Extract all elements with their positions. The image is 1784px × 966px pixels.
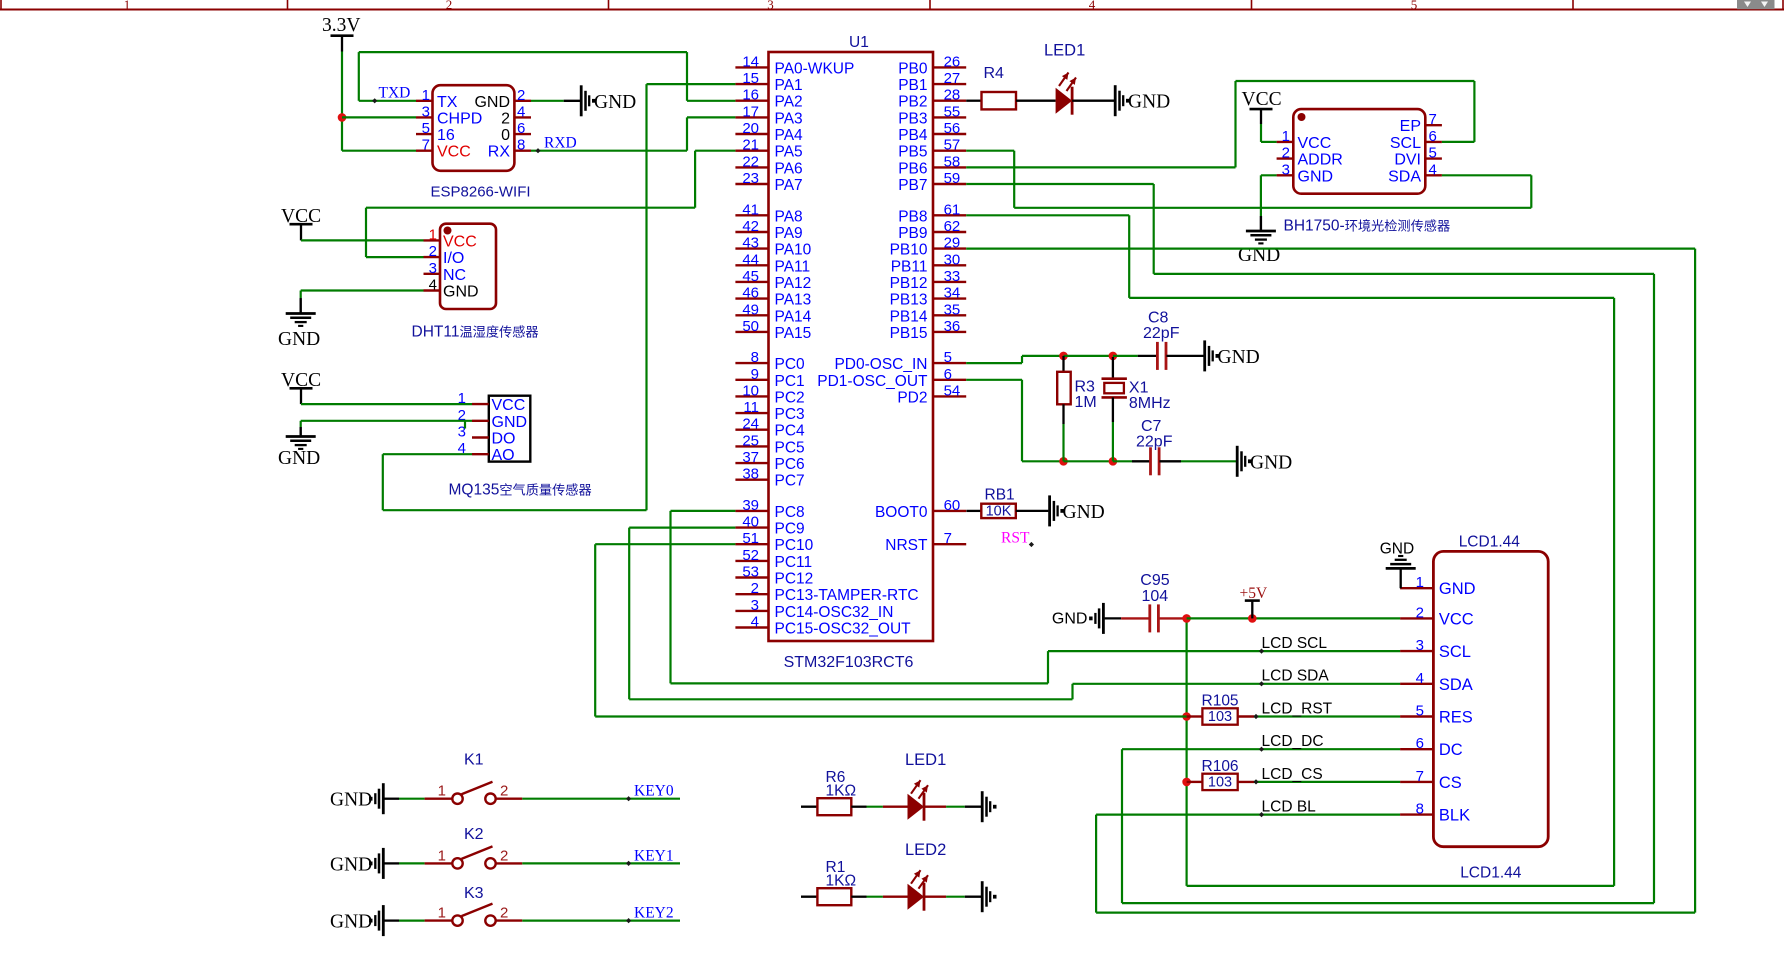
svg-text:GND: GND bbox=[1063, 502, 1105, 523]
svg-text:PB9: PB9 bbox=[898, 225, 927, 242]
svg-text:BLK: BLK bbox=[1439, 807, 1470, 825]
resistor R6 1K bbox=[817, 798, 851, 815]
svg-text:LED2: LED2 bbox=[905, 841, 946, 859]
svg-text:8: 8 bbox=[517, 137, 525, 154]
svg-text:35: 35 bbox=[944, 301, 961, 318]
svg-text:PA12: PA12 bbox=[775, 275, 812, 292]
svg-text:PB5: PB5 bbox=[898, 144, 927, 161]
svg-text:R4: R4 bbox=[984, 65, 1005, 82]
svg-text:PC3: PC3 bbox=[775, 406, 805, 423]
svg-text:5: 5 bbox=[1416, 703, 1424, 720]
svg-text:43: 43 bbox=[742, 235, 759, 252]
svg-text:PC13-TAMPER-RTC: PC13-TAMPER-RTC bbox=[775, 587, 919, 604]
LCD pin 7 CS bbox=[1400, 781, 1433, 783]
svg-text:11: 11 bbox=[743, 399, 759, 416]
svg-text:45: 45 bbox=[742, 268, 759, 285]
svg-text:26: 26 bbox=[944, 53, 961, 70]
svg-text:GND: GND bbox=[1380, 541, 1414, 558]
wire DHT11 pin2 I/O to PA5 bbox=[366, 256, 424, 258]
svg-text:PB0: PB0 bbox=[898, 60, 928, 77]
svg-text:59: 59 bbox=[944, 170, 961, 187]
svg-text:CS: CS bbox=[1439, 774, 1462, 792]
svg-text:CHPD: CHPD bbox=[437, 110, 482, 127]
svg-text:PB2: PB2 bbox=[898, 94, 927, 111]
svg-text:LCD BL: LCD BL bbox=[1262, 799, 1317, 816]
MQ135 pin 1 bbox=[472, 403, 489, 405]
wire GND to K3 bbox=[385, 919, 400, 921]
svg-text:33: 33 bbox=[944, 268, 961, 285]
svg-text:8: 8 bbox=[1416, 801, 1424, 818]
svg-text:40: 40 bbox=[742, 514, 759, 531]
svg-text:3: 3 bbox=[429, 260, 437, 277]
U1 pin 7 NRST bbox=[933, 543, 966, 545]
svg-text:56: 56 bbox=[944, 120, 961, 137]
svg-text:PA5: PA5 bbox=[775, 144, 803, 161]
svg-text:MQ135空气质量传感器: MQ135空气质量传感器 bbox=[449, 482, 592, 499]
wire K2 to net KEY1 bbox=[496, 862, 523, 864]
svg-text:PC15-OSC32_OUT: PC15-OSC32_OUT bbox=[775, 621, 912, 638]
wire PC8 to LCD SCL bbox=[671, 510, 736, 512]
svg-text:20: 20 bbox=[742, 120, 759, 137]
wire stub left of R6 bbox=[801, 806, 817, 808]
svg-text:6: 6 bbox=[517, 120, 525, 137]
svg-text:PA2: PA2 bbox=[775, 94, 803, 111]
svg-text:25: 25 bbox=[742, 432, 759, 449]
svg-text:DHT11温湿度传感器: DHT11温湿度传感器 bbox=[412, 324, 539, 341]
svg-text:57: 57 bbox=[944, 137, 961, 154]
svg-text:2: 2 bbox=[500, 783, 508, 800]
svg-text:VCC: VCC bbox=[1242, 89, 1282, 110]
svg-text:LCD1.44: LCD1.44 bbox=[1460, 865, 1522, 882]
svg-text:PC2: PC2 bbox=[775, 389, 805, 406]
svg-text:PA15: PA15 bbox=[775, 325, 812, 342]
svg-text:2: 2 bbox=[500, 905, 508, 922]
U1 pin 22 PA6 bbox=[735, 166, 768, 168]
ground LED1 GND bbox=[981, 791, 984, 822]
ground LED1 GND bbox=[1114, 85, 1117, 116]
BH1750 pin 4 SDA bbox=[1425, 174, 1442, 176]
svg-text:2: 2 bbox=[517, 87, 525, 104]
wire R6 to LED1 bbox=[851, 806, 866, 808]
svg-text:2: 2 bbox=[429, 243, 437, 260]
junction rail2/X1 bbox=[1109, 457, 1118, 466]
ground DHT11 GND bbox=[300, 299, 302, 314]
svg-text:PA11: PA11 bbox=[775, 258, 811, 275]
U1 pin 23 PA7 bbox=[735, 183, 768, 185]
U1 pin 57 PB5 bbox=[933, 149, 966, 151]
svg-text:RX: RX bbox=[488, 144, 511, 161]
svg-text:2: 2 bbox=[1282, 145, 1290, 162]
svg-text:17: 17 bbox=[742, 103, 759, 120]
module ESP8266-WIFI body bbox=[433, 85, 515, 171]
U1 pin 56 PB4 bbox=[933, 133, 966, 135]
ground MQ135 GND bbox=[300, 427, 302, 437]
svg-text:22pF: 22pF bbox=[1136, 434, 1173, 451]
svg-text:6: 6 bbox=[1416, 735, 1424, 752]
switch K2 bbox=[452, 858, 462, 868]
U1 pin 8 PC0 bbox=[735, 362, 768, 364]
svg-text:PB11: PB11 bbox=[891, 258, 928, 275]
wire PB5 to BH1750 SDA bbox=[966, 150, 1014, 152]
display LCD1.44 body bbox=[1433, 551, 1548, 846]
svg-text:PB4: PB4 bbox=[898, 127, 928, 144]
net RXD wire ESP pin8 to PA3 bbox=[531, 150, 687, 152]
wire LCD SCL from PC8 bbox=[1048, 650, 1400, 652]
wire GND to K2 bbox=[385, 862, 400, 864]
wire PC9 to LCD SDA bbox=[629, 526, 735, 528]
led LED1 bbox=[908, 794, 925, 820]
svg-text:29: 29 bbox=[944, 235, 961, 252]
svg-text:PC4: PC4 bbox=[775, 423, 806, 440]
U1 pin 9 PC1 bbox=[735, 379, 768, 381]
DHT11 pin1 marker dot bbox=[444, 227, 452, 235]
svg-text:GND: GND bbox=[1052, 611, 1088, 628]
wire VCC to BH1750 pin1 bbox=[1260, 124, 1262, 142]
capacitor C7 22pF bbox=[1132, 460, 1151, 462]
svg-text:LCD_RST: LCD_RST bbox=[1262, 701, 1333, 718]
junction RES row bbox=[1182, 712, 1191, 721]
svg-text:5: 5 bbox=[422, 120, 430, 137]
svg-text:VCC: VCC bbox=[492, 397, 526, 414]
DHT11 pin 2 bbox=[424, 256, 441, 258]
wire PB8 to +5V net bbox=[966, 214, 1129, 216]
svg-text:R3: R3 bbox=[1075, 379, 1096, 396]
wire K3 to net KEY2 bbox=[496, 919, 523, 921]
svg-text:103: 103 bbox=[1208, 709, 1232, 725]
svg-text:1: 1 bbox=[438, 847, 446, 864]
sheet ruler bar bbox=[0, 9, 1784, 11]
svg-text:ADDR: ADDR bbox=[1298, 152, 1343, 169]
svg-text:ESP8266-WIFI: ESP8266-WIFI bbox=[431, 184, 531, 201]
U1 pin 2 PC13-TAMPER-RTC bbox=[735, 593, 768, 595]
BH1750 pin 6 SCL bbox=[1425, 141, 1442, 143]
svg-text:3: 3 bbox=[422, 103, 430, 120]
svg-text:22: 22 bbox=[742, 153, 759, 170]
svg-text:4: 4 bbox=[751, 614, 759, 631]
svg-text:PB13: PB13 bbox=[890, 292, 928, 309]
svg-text:16: 16 bbox=[437, 127, 455, 144]
svg-text:103: 103 bbox=[1208, 774, 1232, 790]
LCD pin 3 SCL bbox=[1400, 650, 1433, 652]
svg-text:7: 7 bbox=[944, 530, 952, 547]
resistor R3 1M bbox=[1062, 356, 1064, 372]
wire PB10 to LCD BLK bbox=[966, 248, 1695, 250]
wire to ESP pin3 CHPD bbox=[342, 116, 416, 118]
junction rail2/R3 bbox=[1059, 457, 1068, 466]
U1 pin 27 PB1 bbox=[933, 83, 966, 85]
svg-text:NC: NC bbox=[443, 267, 466, 284]
svg-text:51: 51 bbox=[742, 530, 759, 547]
ESP8266 pin 1 stub bbox=[416, 100, 433, 102]
svg-text:RXD: RXD bbox=[544, 135, 577, 152]
svg-text:VCC: VCC bbox=[443, 233, 477, 250]
wire stub left of R1 bbox=[801, 896, 817, 898]
U1 pin 61 PB8 bbox=[933, 214, 966, 216]
resistor R1 1K bbox=[817, 888, 851, 905]
svg-text:PB8: PB8 bbox=[898, 208, 927, 225]
U1 pin 60 BOOT0 bbox=[933, 510, 966, 512]
svg-text:5: 5 bbox=[944, 349, 952, 366]
U1 pin 34 PB13 bbox=[933, 297, 966, 299]
BH1750 pin 7 EP bbox=[1425, 124, 1442, 126]
svg-text:2: 2 bbox=[500, 847, 508, 864]
svg-text:DO: DO bbox=[492, 431, 516, 448]
svg-text:2: 2 bbox=[501, 110, 510, 127]
svg-text:53: 53 bbox=[742, 564, 759, 581]
svg-text:PC5: PC5 bbox=[775, 439, 805, 456]
U1 pin 24 PC4 bbox=[735, 429, 768, 431]
svg-text:SCL: SCL bbox=[1390, 135, 1421, 152]
U1 pin 21 PA5 bbox=[735, 149, 768, 151]
DHT11 pin 3 bbox=[424, 273, 441, 275]
svg-text:62: 62 bbox=[944, 218, 961, 235]
svg-text:1KΩ: 1KΩ bbox=[826, 873, 857, 890]
U1 pin 26 PB0 bbox=[933, 66, 966, 68]
svg-text:KEY1: KEY1 bbox=[634, 847, 674, 864]
wire MQ135 pin4 AO to PA1 bbox=[383, 453, 472, 455]
svg-text:GND: GND bbox=[594, 92, 636, 113]
U1 pin 16 PA2 bbox=[735, 99, 768, 101]
ESP8266 pin 5 stub bbox=[416, 133, 433, 135]
switch K3 bbox=[452, 915, 462, 925]
svg-text:5: 5 bbox=[1429, 145, 1437, 162]
ground LCD GND (earth) bbox=[1399, 567, 1401, 569]
wire C8 to GND bbox=[1166, 355, 1203, 357]
U1 pin 43 PA10 bbox=[735, 247, 768, 249]
svg-text:PC14-OSC32_IN: PC14-OSC32_IN bbox=[775, 604, 894, 621]
svg-text:4: 4 bbox=[517, 103, 525, 120]
svg-text:1: 1 bbox=[1282, 128, 1290, 145]
svg-text:GND: GND bbox=[1298, 168, 1334, 185]
ground ESP8266 GND bbox=[580, 85, 583, 116]
svg-text:GND: GND bbox=[1250, 453, 1292, 474]
svg-text:36: 36 bbox=[944, 318, 961, 335]
svg-text:38: 38 bbox=[742, 466, 759, 483]
resistor R106 103 bbox=[1187, 781, 1203, 783]
ESP8266 pin 8 stub bbox=[514, 149, 531, 151]
U1 pin 49 PA14 bbox=[735, 314, 768, 316]
svg-text:SDA: SDA bbox=[1439, 676, 1473, 694]
svg-text:BOOT0: BOOT0 bbox=[875, 504, 928, 521]
DHT11 pin 1 bbox=[424, 239, 441, 241]
svg-text:3: 3 bbox=[767, 0, 774, 12]
svg-text:VCC: VCC bbox=[1439, 610, 1474, 628]
svg-text:VCC: VCC bbox=[1298, 135, 1332, 152]
U1 pin 29 PB10 bbox=[933, 247, 966, 249]
led LED1 (top) bbox=[1056, 88, 1073, 114]
svg-text:GND: GND bbox=[1128, 92, 1170, 113]
svg-text:54: 54 bbox=[944, 382, 961, 399]
svg-text:LCD SDA: LCD SDA bbox=[1262, 668, 1330, 685]
svg-text:9: 9 bbox=[751, 366, 759, 383]
wire VCC to DHT11 pin1 bbox=[301, 239, 424, 241]
svg-text:10: 10 bbox=[742, 382, 759, 399]
U1 pin 4 PC15-OSC32_OUT bbox=[735, 626, 768, 628]
svg-text:GND: GND bbox=[330, 912, 372, 933]
svg-text:KEY0: KEY0 bbox=[634, 783, 674, 800]
LCD pin 6 DC bbox=[1400, 748, 1433, 750]
svg-text:1M: 1M bbox=[1075, 394, 1097, 411]
svg-text:1: 1 bbox=[124, 0, 131, 12]
svg-text:41: 41 bbox=[742, 201, 759, 218]
U1 pin 59 PB7 bbox=[933, 183, 966, 185]
U1 pin 15 PA1 bbox=[735, 83, 768, 85]
ESP8266 pin 3 stub bbox=[416, 116, 433, 118]
svg-text:K2: K2 bbox=[464, 826, 484, 843]
svg-text:1: 1 bbox=[429, 226, 437, 243]
U1 pin 62 PB9 bbox=[933, 231, 966, 233]
U1 pin 6 PD1-OSC_OUT bbox=[933, 379, 966, 381]
svg-text:2: 2 bbox=[751, 580, 759, 597]
svg-text:28: 28 bbox=[944, 87, 961, 104]
svg-text:C7: C7 bbox=[1141, 418, 1162, 435]
svg-text:X1: X1 bbox=[1129, 380, 1149, 397]
svg-text:GND: GND bbox=[278, 448, 320, 469]
mcu U1 body bbox=[769, 52, 934, 641]
svg-text:LED1: LED1 bbox=[1044, 42, 1085, 60]
svg-text:PC7: PC7 bbox=[775, 473, 805, 490]
U1 pin 3 PC14-OSC32_IN bbox=[735, 610, 768, 612]
svg-text:LCD1.44: LCD1.44 bbox=[1459, 534, 1521, 551]
svg-text:PC9: PC9 bbox=[775, 521, 805, 538]
svg-text:LCD_CS: LCD_CS bbox=[1262, 766, 1323, 783]
U1 pin 39 PC8 bbox=[735, 510, 768, 512]
svg-text:30: 30 bbox=[944, 251, 961, 268]
svg-text:SDA: SDA bbox=[1388, 168, 1421, 185]
U1 pin 44 PA11 bbox=[735, 264, 768, 266]
svg-text:PC0: PC0 bbox=[775, 356, 806, 373]
BH1750 pin 1 VCC bbox=[1277, 141, 1294, 143]
ground LED2 GND bbox=[981, 881, 984, 912]
svg-text:RES: RES bbox=[1439, 709, 1473, 727]
svg-text:4: 4 bbox=[1429, 161, 1437, 178]
svg-text:GND: GND bbox=[330, 790, 372, 811]
svg-text:STM32F103RCT6: STM32F103RCT6 bbox=[784, 654, 914, 671]
svg-text:42: 42 bbox=[742, 218, 759, 235]
svg-text:PB7: PB7 bbox=[898, 177, 927, 194]
U1 pin 30 PB11 bbox=[933, 264, 966, 266]
svg-text:PB14: PB14 bbox=[890, 308, 928, 325]
wire ESP pin2 to GND bbox=[531, 100, 564, 102]
svg-text:GND: GND bbox=[443, 284, 479, 301]
wire R1 to LED2 bbox=[851, 896, 866, 898]
U1 pin 46 PA13 bbox=[735, 297, 768, 299]
svg-text:GND: GND bbox=[1218, 347, 1260, 368]
svg-text:PC6: PC6 bbox=[775, 456, 805, 473]
LCD pin 8 BLK bbox=[1400, 813, 1433, 815]
svg-text:60: 60 bbox=[944, 497, 961, 514]
U1 pin 41 PA8 bbox=[735, 214, 768, 216]
U1 pin 40 PC9 bbox=[735, 526, 768, 528]
DHT11 pin 4 bbox=[424, 289, 441, 291]
svg-text:NRST: NRST bbox=[885, 537, 928, 554]
wire K1 to net KEY0 bbox=[496, 798, 523, 800]
U1 pin 42 PA9 bbox=[735, 231, 768, 233]
svg-text:R105: R105 bbox=[1202, 693, 1239, 710]
BH1750 pin 2 ADDR bbox=[1277, 157, 1294, 159]
wire C7 to GND bbox=[1159, 460, 1181, 462]
capacitor C8 22pF bbox=[1138, 355, 1158, 357]
resistor R105 103 bbox=[1187, 715, 1203, 717]
svg-text:10K: 10K bbox=[986, 503, 1012, 519]
U1 pin 28 PB2 bbox=[933, 99, 966, 101]
svg-text:VCC: VCC bbox=[437, 144, 471, 161]
svg-text:37: 37 bbox=[742, 449, 759, 466]
svg-text:LCD_DC: LCD_DC bbox=[1262, 733, 1324, 750]
ESP8266 pin 7 stub bbox=[416, 149, 433, 151]
svg-text:PA14: PA14 bbox=[775, 308, 812, 325]
svg-text:7: 7 bbox=[1429, 111, 1437, 128]
svg-text:PA13: PA13 bbox=[775, 292, 812, 309]
wire LED2 to GND bbox=[924, 896, 946, 898]
svg-text:2: 2 bbox=[446, 0, 453, 12]
ESP8266 pin 2 stub bbox=[514, 100, 531, 102]
svg-text:PB15: PB15 bbox=[890, 325, 928, 342]
svg-text:C8: C8 bbox=[1148, 310, 1169, 327]
crystal X1 8MHz bbox=[1112, 357, 1114, 379]
svg-text:6: 6 bbox=[1429, 128, 1437, 145]
svg-text:PC12: PC12 bbox=[775, 571, 814, 588]
svg-text:PA7: PA7 bbox=[775, 177, 803, 194]
junction C95/+5V bbox=[1182, 614, 1191, 623]
U1 pin 33 PB12 bbox=[933, 281, 966, 283]
U1 pin 25 PC5 bbox=[735, 445, 768, 447]
svg-text:PC10: PC10 bbox=[775, 537, 814, 554]
wire PB2 to R4 (black) bbox=[966, 100, 981, 102]
svg-text:3.3V: 3.3V bbox=[322, 15, 360, 36]
BH1750 pin 5 DVI bbox=[1425, 157, 1442, 159]
resistor R4 bbox=[982, 92, 1017, 109]
wire 3.3V down bbox=[341, 52, 343, 151]
svg-text:23: 23 bbox=[742, 170, 759, 187]
svg-text:3: 3 bbox=[1282, 161, 1290, 178]
U1 pin 53 PC12 bbox=[735, 576, 768, 578]
sensor DHT11 body bbox=[440, 224, 496, 309]
U1 pin 52 PC11 bbox=[735, 560, 768, 562]
LCD pin 2 VCC bbox=[1400, 617, 1433, 619]
svg-text:7: 7 bbox=[422, 137, 430, 154]
U1 pin 10 PC2 bbox=[735, 395, 768, 397]
sensor BH1750 body bbox=[1293, 109, 1425, 194]
wire BH1750 pin3 to GND bbox=[1261, 174, 1277, 176]
wire GND to K1 bbox=[385, 798, 400, 800]
U1 pin 58 PB6 bbox=[933, 166, 966, 168]
svg-text:1: 1 bbox=[1416, 574, 1424, 591]
wire DHT11 pin4 to GND bbox=[301, 289, 424, 291]
svg-text:49: 49 bbox=[742, 301, 759, 318]
junction rail1/X1 bbox=[1109, 352, 1118, 361]
U1 pin 17 PA3 bbox=[735, 116, 768, 118]
U1 pin 37 PC6 bbox=[735, 462, 768, 464]
ground RB1 GND bbox=[1048, 495, 1051, 526]
wire MQ135 pin2 to GND bbox=[301, 420, 472, 422]
sensor MQ135 body bbox=[489, 396, 531, 462]
ESP8266 pin 4 stub bbox=[514, 116, 531, 118]
svg-text:PD1-OSC_OUT: PD1-OSC_OUT bbox=[817, 373, 928, 390]
svg-text:EP: EP bbox=[1400, 118, 1421, 135]
svg-text:PD2: PD2 bbox=[897, 389, 927, 406]
svg-text:PD0-OSC_IN: PD0-OSC_IN bbox=[834, 356, 927, 373]
svg-text:+5V: +5V bbox=[1240, 585, 1268, 602]
BH1750 pin 3 GND bbox=[1277, 174, 1294, 176]
svg-text:GND: GND bbox=[278, 329, 320, 350]
svg-text:4: 4 bbox=[1416, 670, 1424, 687]
svg-text:55: 55 bbox=[944, 103, 961, 120]
svg-text:PA10: PA10 bbox=[775, 242, 812, 259]
U1 pin 14 PA0-WKUP bbox=[735, 66, 768, 68]
MQ135 pin 3 bbox=[472, 436, 489, 438]
svg-text:PA4: PA4 bbox=[775, 127, 804, 144]
